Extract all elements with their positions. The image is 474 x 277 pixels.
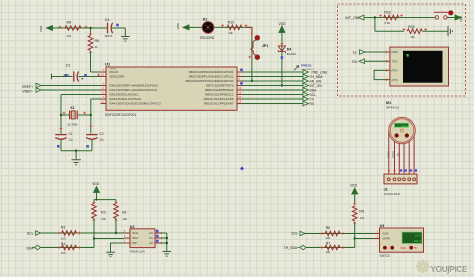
- svg-text:10k: 10k: [123, 217, 128, 221]
- svg-text:10k: 10k: [101, 217, 106, 221]
- svg-text:R8: R8: [67, 20, 72, 24]
- svg-text:R10: R10: [228, 21, 235, 25]
- svg-text:6.8k: 6.8k: [385, 21, 391, 25]
- svg-text:RA1/CN3/VREF-/AN1/EMUC2/PGC2: RA1/CN3/VREF-/AN1/EMUC2/PGC2: [110, 88, 158, 92]
- svg-text:60.0: 60.0: [415, 234, 421, 238]
- svg-text:PRE_LINE: PRE_LINE: [312, 70, 329, 74]
- svg-text:R4: R4: [61, 242, 66, 246]
- svg-text:10k: 10k: [360, 216, 365, 220]
- svg-text:SCK: SCK: [383, 232, 389, 236]
- svg-text:A2: A2: [149, 241, 153, 245]
- svg-text:SCL: SCL: [291, 231, 298, 235]
- svg-text:VS: VS: [397, 152, 400, 156]
- svg-text:10k: 10k: [410, 35, 415, 39]
- svg-text:VDDCORE: VDDCORE: [110, 75, 125, 79]
- svg-text:WP: WP: [132, 241, 137, 245]
- svg-text:100: 100: [325, 250, 330, 254]
- svg-text:VDD: VDD: [279, 22, 286, 26]
- svg-text:SDA: SDA: [132, 236, 138, 240]
- svg-text:A1: A1: [149, 236, 153, 240]
- svg-text:R7: R7: [326, 241, 331, 245]
- svg-text:DSPIC33FJ12GP201: DSPIC33FJ12GP201: [105, 113, 137, 117]
- svg-text:RX: RX: [310, 102, 315, 106]
- svg-text:U3: U3: [380, 224, 385, 228]
- svg-text:J1: J1: [384, 187, 388, 191]
- svg-text:R6: R6: [326, 226, 331, 230]
- svg-text:C3: C3: [66, 64, 71, 68]
- svg-text:RB8/CN22/RP8/SDA1: RB8/CN22/RP8/SDA1: [205, 88, 234, 92]
- svg-text:RXD: RXD: [392, 50, 399, 54]
- svg-text:R2: R2: [101, 211, 106, 215]
- svg-text:VREF-: VREF-: [22, 90, 33, 94]
- svg-text:R9: R9: [95, 39, 100, 43]
- svg-text:100: 100: [61, 237, 66, 241]
- svg-text:OUTP-: OUTP-: [392, 150, 395, 158]
- svg-text:C1: C1: [69, 132, 73, 136]
- svg-text:RA2/CN30/CLKI/OSCI: RA2/CN30/CLKI/OSCI: [110, 93, 139, 97]
- svg-text:U2: U2: [130, 225, 135, 229]
- svg-text:JP1: JP1: [262, 44, 269, 48]
- svg-text:FM24CL64: FM24CL64: [130, 249, 145, 253]
- svg-text:R22: R22: [408, 25, 415, 29]
- svg-text:100.0: 100.0: [414, 239, 421, 243]
- svg-text:22p: 22p: [99, 138, 104, 142]
- svg-text:DATA: DATA: [383, 237, 391, 241]
- svg-text:RB14/CN12/RP14/AN6: RB14/CN12/RP14/AN6: [204, 97, 234, 101]
- svg-text:U1: U1: [105, 62, 111, 67]
- svg-text:RX: RX: [352, 60, 358, 64]
- svg-text:UH0.52501T: UH0.52501T: [302, 69, 315, 71]
- svg-text:SHT15: SHT15: [380, 254, 390, 258]
- svg-text:VDD: VDD: [39, 25, 43, 32]
- svg-text:MCLR: MCLR: [110, 70, 118, 74]
- svg-text:SDA: SDA: [310, 88, 318, 92]
- svg-text:CONN-SIL8: CONN-SIL8: [384, 192, 400, 196]
- svg-text:10uF: 10uF: [63, 73, 70, 77]
- svg-text:PRESS: PRESS: [301, 63, 312, 67]
- svg-text:10k: 10k: [228, 31, 233, 35]
- svg-text:X1: X1: [70, 106, 74, 110]
- svg-text:D1: D1: [203, 18, 208, 22]
- svg-text:R3: R3: [61, 226, 66, 230]
- svg-text:100: 100: [325, 236, 330, 240]
- svg-text:MPX4115: MPX4115: [386, 106, 399, 110]
- svg-text:OUTP+: OUTP+: [387, 149, 390, 158]
- svg-text:RECORD: RECORD: [200, 36, 215, 40]
- svg-text:C4: C4: [105, 18, 110, 22]
- svg-text:RB9/CN21/RP9/SCL1: RB9/CN21/RP9/SCL1: [205, 93, 234, 97]
- svg-text:AN_SW: AN_SW: [310, 79, 323, 83]
- svg-text:CTS: CTS: [392, 78, 398, 82]
- svg-text:R1: R1: [122, 211, 127, 215]
- svg-text:VDD: VDD: [176, 22, 180, 29]
- svg-text:RB0/CN4/RP0/AN2/EMUD1/PGD1: RB0/CN4/RP0/AN2/EMUD1/PGD1: [189, 70, 234, 74]
- svg-text:YOU∫PICE: YOU∫PICE: [431, 265, 469, 274]
- svg-text:TXD: TXD: [392, 59, 399, 63]
- svg-text:A0: A0: [149, 231, 153, 235]
- svg-text:100: 100: [61, 251, 66, 255]
- svg-text:TH_SDA: TH_SDA: [284, 246, 298, 250]
- svg-text:INT_ON: INT_ON: [345, 16, 359, 20]
- svg-text:32.768k: 32.768k: [67, 122, 78, 126]
- svg-text:RB1/CN5/RP1/AN3/EMUC1/PGC1: RB1/CN5/RP1/AN3/EMUC1/PGC1: [189, 75, 234, 79]
- svg-text:RB15/CN11/RP15/AN7: RB15/CN11/RP15/AN7: [204, 102, 234, 106]
- svg-text:22p: 22p: [69, 138, 74, 142]
- svg-text:RB7/CN23/RP7/INT0: RB7/CN23/RP7/INT0: [206, 84, 234, 88]
- svg-text:R23: R23: [384, 10, 391, 14]
- svg-text:M1: M1: [386, 101, 391, 105]
- svg-text:VDD: VDD: [459, 16, 463, 22]
- svg-text:RB4/CN1/RP4/SOSCI/EMUD3/PGD3: RB4/CN1/RP4/SOSCI/EMUD3/PGD3: [185, 79, 233, 83]
- svg-text:%RH: %RH: [400, 246, 406, 250]
- svg-text:558.8: 558.8: [401, 124, 408, 128]
- svg-text:RA3/CN29/CLKO/OSCO: RA3/CN29/CLKO/OSCO: [110, 97, 143, 101]
- svg-text:VREF+: VREF+: [22, 85, 33, 89]
- svg-text:SCL: SCL: [27, 232, 34, 236]
- svg-text:BAS40: BAS40: [287, 52, 296, 56]
- svg-text:RA0/CN2/VREF+/AN0/EMUD2/PGD2: RA0/CN2/VREF+/AN0/EMUD2/PGD2: [110, 84, 159, 88]
- svg-text:TX: TX: [310, 97, 315, 101]
- svg-text:100nF: 100nF: [104, 34, 112, 38]
- svg-text:SCK: SCK: [132, 231, 138, 235]
- svg-text:RTS: RTS: [392, 69, 398, 73]
- svg-text:SCL: SCL: [310, 93, 317, 97]
- svg-text:R5: R5: [359, 210, 364, 214]
- svg-text:INT_ON: INT_ON: [310, 84, 323, 88]
- svg-text:10k: 10k: [67, 34, 72, 38]
- svg-text:TX: TX: [352, 51, 357, 55]
- svg-text:RA4/CN0/T1CK/SOSCO/EMUC3/PGC3: RA4/CN0/T1CK/SOSCO/EMUC3/PGC3: [110, 102, 162, 106]
- svg-text:VDD: VDD: [350, 184, 358, 188]
- svg-text:1k: 1k: [95, 45, 99, 49]
- svg-text:TH_SDA: TH_SDA: [310, 75, 324, 79]
- svg-text:VDD: VDD: [92, 182, 100, 186]
- svg-text:C2: C2: [99, 132, 103, 136]
